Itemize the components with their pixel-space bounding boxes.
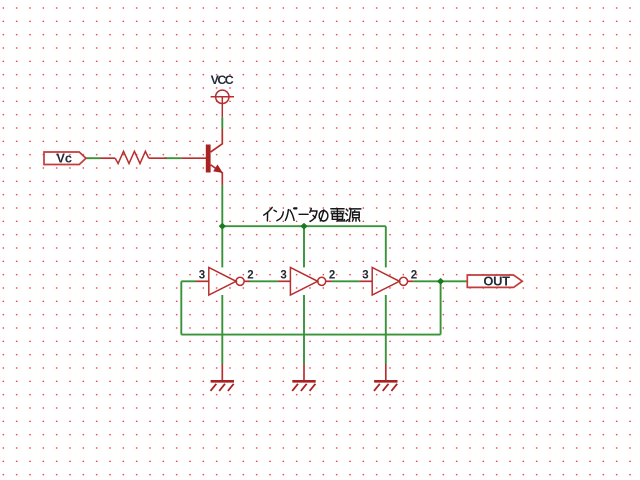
transistor Q1 emitter arrow	[213, 164, 223, 173]
svg-text:3: 3	[362, 269, 368, 281]
power symbol VCC	[211, 90, 234, 117]
resistor R zigzag	[115, 151, 149, 163]
glyph ン	[274, 210, 276, 211]
svg-text:VCC: VCC	[211, 73, 234, 87]
transistor Q1 collector	[211, 129, 223, 152]
inverter U2 triangle	[290, 268, 317, 296]
wire: power drop to inverter U2 top	[303, 226, 305, 267]
wire: U2 bottom to ground 2	[303, 295, 305, 364]
svg-text:2: 2	[329, 269, 335, 281]
glyph の	[320, 210, 324, 221]
inverter U3 bubble	[399, 277, 407, 285]
wire: feedback loop right vertical	[440, 281, 442, 334]
inverter U2 input pin	[278, 280, 291, 282]
transistor Q1 emitter	[211, 165, 223, 185]
inverter U2 output pin	[326, 280, 331, 282]
ground 2 bar	[292, 380, 315, 383]
wire: U3 bottom to ground 3	[385, 295, 387, 364]
svg-text:2: 2	[247, 269, 253, 281]
transistor Q1 base bar	[206, 145, 211, 173]
junction node at OUT feedback	[438, 279, 444, 284]
glyph タ	[310, 208, 312, 212]
wire: feedback loop left vertical	[180, 281, 182, 334]
wire: U1 output to U2 input	[250, 280, 278, 282]
inverter U1 output pin	[244, 280, 249, 282]
svg-text:OUT: OUT	[483, 274, 510, 289]
ground 2 stub	[303, 364, 305, 380]
inverter U1 input pin	[196, 280, 209, 282]
output label OUT flag	[467, 275, 522, 287]
glyph 源	[346, 209, 348, 211]
inverter U1 bubble	[236, 277, 244, 285]
glyph バ	[285, 210, 288, 221]
wire: VCC stub to transistor collector	[221, 117, 223, 129]
ground 3 hatches	[374, 384, 397, 391]
glyph ー	[299, 213, 308, 215]
svg-text:3: 3	[199, 269, 205, 281]
svg-text:2: 2	[411, 269, 417, 281]
inverter U3 triangle	[372, 268, 399, 296]
input label Vc flag	[44, 152, 86, 165]
wire: feedback to U1 input	[181, 280, 196, 282]
wire: U3 output to OUT label	[413, 280, 467, 282]
svg-text:3: 3	[280, 269, 286, 281]
ground 1 bar	[211, 380, 234, 383]
wire: power drop to inverter U3 top	[385, 226, 387, 267]
junction node at power bus x=222	[220, 224, 226, 229]
wire: resistor to transistor base	[165, 157, 182, 159]
wire: Vc label to resistor	[86, 157, 101, 159]
inverter U3 output pin	[408, 280, 413, 282]
wire: U1 bottom to ground 1	[221, 295, 223, 364]
ground 2 hatches	[292, 384, 315, 391]
resistor R leads	[101, 157, 116, 159]
glyph イ	[264, 207, 273, 215]
net name インバータの電源 (hand-drawn glyphs)	[264, 207, 361, 221]
junction node at power bus x=304	[301, 224, 307, 229]
inverter U1 triangle	[209, 268, 236, 296]
wire: feedback loop bottom horizontal	[181, 334, 440, 336]
wire: U2 output to U3 input	[331, 280, 359, 282]
ground 1 hatches	[211, 384, 234, 391]
inverter U2 bubble	[318, 277, 326, 285]
wire: power drop to inverter U1 top	[221, 226, 223, 267]
ground 1 stub	[221, 364, 223, 380]
wire: power bus horizontal	[222, 225, 385, 227]
svg-text:Vc: Vc	[56, 150, 72, 165]
ground 3 stub	[385, 364, 387, 380]
wire: transistor emitter down to power bus node	[221, 185, 223, 226]
ground 3 bar	[374, 380, 397, 383]
glyph 電	[331, 208, 344, 210]
inverter U3 input pin	[359, 280, 372, 282]
transistor Q1 base pin	[182, 157, 206, 159]
